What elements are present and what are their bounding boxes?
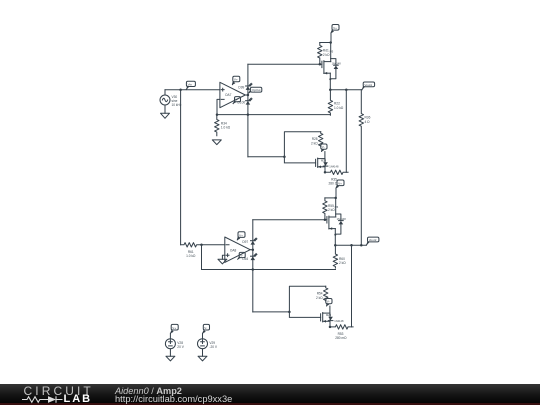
wire gate box stage2 lower	[289, 286, 325, 317]
node source stage1 lower	[324, 171, 327, 174]
svg-text:280 mΩ: 280 mΩ	[335, 336, 347, 340]
wire left input rail	[180, 90, 182, 245]
diode body stage2 lower	[328, 317, 344, 323]
flag V- (stage1 lower)	[321, 144, 327, 152]
svg-text:OA7: OA7	[225, 93, 232, 97]
svg-text:280 Ω: 280 Ω	[329, 181, 338, 185]
svg-text:Vin: Vin	[188, 82, 193, 86]
transistor M28 (stage1 lower)	[316, 152, 327, 173]
svg-text:-20 V: -20 V	[209, 345, 217, 349]
resistor R34	[215, 115, 231, 136]
node Vout1 junctions	[329, 88, 348, 91]
flag Vout2	[366, 237, 379, 245]
wire Vout1 net	[330, 89, 362, 91]
node Vin junction	[179, 88, 182, 91]
svg-text:M28: M28	[321, 158, 327, 162]
node top bar junction	[329, 41, 332, 44]
diode body stage1 lower	[323, 162, 339, 168]
svg-text:V+: V+	[333, 26, 337, 30]
voltage source V30	[160, 90, 182, 114]
wire Vin net	[165, 89, 220, 91]
resistor R54	[316, 286, 328, 301]
flag V+ (stage2 upper)	[336, 180, 344, 189]
node source join stage1 upper	[329, 78, 331, 80]
wire OA7 output stub	[245, 94, 248, 96]
diode D54	[242, 254, 257, 261]
node R61 output junction	[200, 244, 203, 247]
node R55/gate junction	[324, 219, 327, 222]
transistor M29 (stage2 lower)	[321, 306, 332, 327]
voltage source V29	[198, 333, 218, 356]
wire V+ drop stage2	[335, 188, 337, 198]
svg-text:D54: D54	[242, 257, 248, 261]
svg-text:2 kΩ: 2 kΩ	[311, 141, 318, 145]
resistor Rd1	[318, 43, 331, 65]
svg-text:1N4148: 1N4148	[329, 164, 339, 168]
svg-text:V+: V+	[239, 233, 243, 237]
diode body stage2 upper	[335, 214, 346, 234]
wire R61 to OA8	[202, 244, 225, 246]
svg-text:20 V: 20 V	[177, 345, 184, 349]
svg-text:1N4148: 1N4148	[337, 217, 347, 221]
node lower box T junction stage2	[288, 311, 291, 314]
wire gate box stage1 lower	[284, 132, 320, 163]
wire top bar stage1	[320, 42, 331, 44]
wire rail to lower box stage1	[248, 156, 285, 158]
ground (below V28)	[166, 356, 175, 361]
svg-text:V+: V+	[234, 78, 238, 82]
svg-text:V+: V+	[338, 182, 342, 186]
svg-text:OpOut: OpOut	[252, 88, 261, 92]
svg-text:D99: D99	[238, 85, 244, 89]
flag V- (V29)	[203, 324, 210, 333]
node OA8 output junction	[252, 248, 255, 251]
wire output rail stage2	[252, 220, 254, 312]
wire OA7 inverting input	[217, 99, 220, 114]
node top bar junction stage2	[334, 197, 337, 200]
wire feedback drop stage2	[201, 245, 203, 270]
ground (below V30)	[161, 113, 170, 118]
transistor M5 (stage1 upper nmos)	[322, 43, 334, 80]
node rail/feedback junction	[247, 113, 250, 116]
wire output rail stage1	[247, 64, 249, 157]
resistor R61	[181, 243, 203, 259]
svg-text:Vout1: Vout1	[364, 83, 372, 87]
resistor R22	[328, 90, 344, 116]
svg-text:1.0 kΩ: 1.0 kΩ	[221, 126, 231, 130]
svg-text:V-: V-	[204, 326, 207, 330]
svg-text:D97: D97	[242, 240, 248, 244]
wire OA8 output stub	[250, 249, 253, 251]
transistor M6 (stage2 upper nmos)	[327, 198, 339, 235]
svg-text:V+: V+	[172, 326, 176, 330]
svg-text:M6: M6	[335, 205, 339, 209]
resistor R55	[323, 198, 336, 220]
flag OpOut	[249, 87, 262, 93]
wire gate net stage2 upper	[253, 219, 327, 221]
svg-text:1N4148: 1N4148	[334, 319, 344, 323]
flag V- (OA8 supply)	[238, 252, 246, 259]
node Rd1/gate junction	[319, 63, 322, 66]
wire Vout1 drop rail	[345, 90, 347, 173]
flag V- (stage2 lower)	[326, 299, 332, 307]
flag V+ (OA8 supply)	[237, 232, 245, 240]
node R34 top junction	[216, 113, 219, 116]
svg-text:2 kΩ: 2 kΩ	[339, 261, 346, 265]
wire top bar stage2	[325, 197, 336, 199]
svg-text:V-: V-	[322, 145, 325, 149]
resistor R53	[330, 325, 353, 340]
ground (below R34)	[212, 140, 221, 145]
svg-text:V-: V-	[327, 300, 330, 304]
flag V- (OA7 supply)	[233, 97, 241, 104]
wire source to Vout2	[334, 235, 336, 246]
diode D99	[238, 83, 252, 90]
wire feedback net stage1	[217, 114, 330, 116]
node source join stage2 upper	[334, 234, 336, 236]
svg-text:2 kΩ: 2 kΩ	[316, 296, 323, 300]
flag V+ (V28)	[171, 324, 179, 333]
wire Vout2 lower rail	[351, 245, 353, 327]
wire feedback net stage2	[202, 269, 336, 271]
wire gate net stage1 upper	[248, 63, 322, 65]
svg-text:1N4148: 1N4148	[332, 62, 342, 66]
voltage source V28	[165, 333, 184, 356]
flag V+ (OA7 supply)	[232, 76, 240, 85]
node Vout2 junctions	[334, 244, 363, 247]
wire source to Vout1	[329, 79, 331, 89]
resistor R36	[359, 90, 370, 246]
diode D97	[242, 238, 257, 245]
svg-text:OA8: OA8	[230, 248, 237, 252]
flag Vout1	[362, 82, 375, 90]
svg-text:Vout2: Vout2	[369, 238, 377, 242]
svg-text:M5: M5	[330, 50, 334, 54]
ground (below V29)	[198, 356, 207, 361]
ground (OA8 +)	[218, 259, 227, 264]
node lower box T junction	[283, 156, 286, 159]
op-amp OA7	[220, 82, 245, 107]
svg-text:4 Ω: 4 Ω	[365, 120, 371, 124]
flag V+ (top)	[331, 25, 339, 34]
node source stage2 lower	[329, 326, 332, 329]
diode body stage1 upper	[330, 59, 341, 79]
resistor R35	[325, 170, 348, 185]
svg-text:1.0 kΩ: 1.0 kΩ	[334, 106, 344, 110]
node OA7 output junction	[247, 94, 250, 97]
op-amp OA8	[225, 237, 250, 262]
svg-text:D100: D100	[238, 100, 246, 104]
node rail/feedback junction stage2	[252, 268, 255, 271]
resistor R28	[311, 132, 323, 147]
diode D100	[238, 98, 253, 105]
svg-text:1.0 kΩ: 1.0 kΩ	[186, 254, 196, 258]
resistor R60	[333, 245, 346, 268]
wire OA8 + input	[222, 255, 224, 259]
flag Vin	[186, 81, 195, 89]
svg-text:M29: M29	[326, 313, 332, 317]
wire Vout2 net	[335, 244, 366, 246]
wire rail to lower box stage2	[253, 311, 290, 313]
wire V+ drop stage1	[330, 33, 332, 43]
